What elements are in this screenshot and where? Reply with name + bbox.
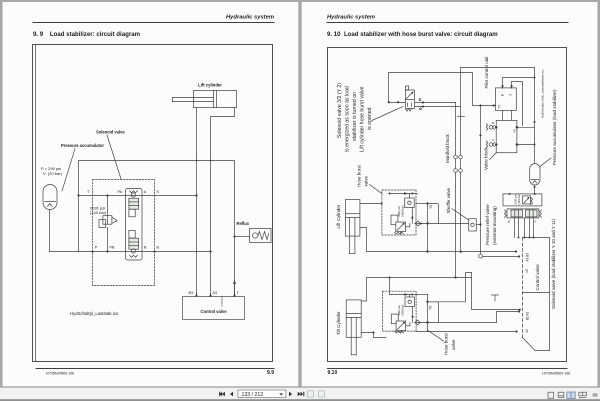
riser tilt circuit (417, 294, 427, 296)
trunk T2 (460, 68, 462, 156)
svg-text:B: B (491, 122, 495, 124)
wire HBV1 to shuffle valve (415, 223, 469, 225)
accumulator A2 (530, 164, 540, 185)
svg-text:valve: valve (451, 339, 456, 350)
svg-text:(140 bar): (140 bar) (90, 210, 107, 215)
wires solenoid block to control valve (514, 218, 516, 238)
footer rule right page (328, 368, 568, 370)
leader to accumulator (62, 149, 75, 192)
footer rule left page (36, 368, 274, 370)
wire lift cap port (360, 203, 382, 205)
wire shuffle to x3 (476, 224, 480, 226)
svg-text:2031 psi: 2031 psi (514, 194, 518, 205)
HBV2 internal wires (400, 331, 402, 333)
prev view ghost icon (308, 391, 325, 397)
svg-text:B3: B3 (189, 291, 194, 295)
solenoid valve block Y10 Y11 (507, 209, 539, 218)
manifold port circles (454, 155, 458, 159)
svg-text:Shuffle valve: Shuffle valve (446, 187, 451, 213)
accumulator A1 (43, 185, 57, 210)
wire lift rod port (360, 228, 516, 252)
svg-text:A3: A3 (213, 291, 218, 295)
svg-text:HY05A4/9500-198: HY05A4/9500-198 (46, 372, 74, 376)
svg-text:Pressure accumulator (load sta: Pressure accumulator (load stabilizer) (552, 89, 557, 165)
svg-text:9.9: 9.9 (267, 370, 274, 376)
check valve CV-B (489, 126, 493, 130)
svg-text:T: T (509, 94, 513, 96)
svg-text:A3 B3: A3 B3 (526, 253, 530, 262)
HBV2 top wire (389, 278, 391, 295)
svg-text:Tilt Cylinder: Tilt Cylinder (336, 311, 341, 335)
hose burst valve 2 enclosure (382, 291, 416, 331)
pilot unit wiring (503, 78, 535, 88)
HBV2 check valve (405, 297, 415, 307)
valve block box (496, 120, 517, 152)
first page button (222, 392, 225, 397)
svg-text:Lift Cylinder: Lift Cylinder (336, 204, 341, 228)
riser lift circuit (427, 204, 429, 252)
lift cylinder body (194, 91, 237, 108)
single page layout icon (548, 392, 554, 398)
header rule right page (327, 22, 568, 24)
prev page button (230, 392, 233, 397)
next page button (289, 392, 292, 397)
wire pipe1 cap side down to B3 (196, 108, 198, 297)
pilot plug x (494, 295, 496, 301)
svg-text:Solenoid valve 3/2 (Y 2): Solenoid valve 3/2 (Y 2) (337, 83, 343, 138)
right page sheet (302, 2, 598, 387)
svg-text:Control valve: Control valve (535, 264, 540, 291)
wire riser and top run to pilot feed (389, 73, 496, 106)
shuffle valve body (469, 219, 477, 231)
svg-text:(140 bar): (140 bar) (517, 193, 521, 204)
svg-text:PA: PA (118, 190, 123, 194)
page number box (238, 390, 286, 398)
wire lift cap to riser (416, 203, 428, 205)
svg-text:Hose burst: Hose burst (444, 332, 449, 355)
facing pages icon selected (567, 392, 575, 399)
HBV1 pilot valve (391, 215, 398, 225)
svg-text:Reflux: Reflux (237, 221, 250, 226)
wire pipe2 down to A3 (210, 252, 212, 297)
wire tilt rod port (361, 333, 386, 338)
control valve box right page (523, 238, 550, 351)
pressure relief valve RV2 (523, 196, 531, 204)
pressure relief valve RV1 (107, 196, 109, 216)
svg-text:(400 bar): (400 bar) (400, 205, 404, 216)
svg-text:Hydraulic system: Hydraulic system (327, 15, 375, 21)
svg-text:HydSchaltpl_Laststab.iso: HydSchaltpl_Laststab.iso (70, 311, 119, 316)
pilot check valve V2 (129, 230, 135, 238)
valve cartridge housing (126, 189, 143, 261)
HBV1 top wire (390, 193, 418, 195)
control valve box (183, 297, 245, 320)
leader shuffle valve (452, 209, 469, 220)
pilot check valve V1 (131, 193, 135, 197)
trunk T1 (455, 103, 457, 156)
svg-text:133 / 212: 133 / 212 (242, 392, 264, 398)
relief valve block (503, 194, 542, 206)
control valve internal stub (221, 297, 223, 307)
diagram frame left page (33, 45, 273, 362)
solenoid valve dashed enclosure (93, 180, 155, 286)
leader hose burst top (370, 185, 382, 194)
HBV1 internal wires (400, 232, 402, 234)
toolbar background (0, 387, 600, 401)
continuous facing icon (579, 392, 587, 397)
leader accumulator (540, 158, 551, 167)
lift cylinder rod right page (349, 217, 351, 253)
leader to solenoid valve box (107, 135, 121, 179)
svg-text:Lift cylinder hose burst valve: Lift cylinder hose burst valve (360, 86, 366, 152)
node top wire junctions (77, 194, 197, 196)
node bottom wire junctions (91, 250, 211, 252)
svg-text:x2: x2 (525, 329, 529, 333)
svg-text:89: 89 (593, 393, 599, 398)
valve block right wiring (517, 126, 535, 128)
HBV1 spring (394, 232, 403, 234)
svg-text:Y9: Y9 (513, 129, 517, 133)
svg-text:Valve block: Valve block (484, 147, 489, 170)
svg-text:Control valve: Control valve (201, 309, 228, 314)
wire to reflux (235, 236, 250, 238)
leader note to valve Y2 (372, 107, 403, 121)
bottom wire P-PB-B-B (50, 251, 211, 253)
svg-text:valve: valve (364, 175, 369, 186)
lift cylinder piston (213, 91, 215, 108)
HBV1 shuttle ball (415, 221, 420, 226)
svg-text:Y7: Y7 (498, 105, 502, 109)
last page button (298, 392, 301, 397)
lift cylinder rod (173, 97, 214, 99)
svg-text:is energized as soon as load: is energized as soon as load (345, 86, 351, 152)
svg-text:Lift cylinder: Lift cylinder (198, 83, 222, 88)
tilt cylinder rod (350, 317, 352, 354)
wire Y2 left port to riser (389, 102, 405, 104)
diagram frame right page (328, 48, 567, 362)
svg-text:Solenoid valve (load stabilize: Solenoid valve (load stabilizer Y 10 and… (551, 218, 556, 309)
svg-text:(external mounting): (external mounting) (492, 206, 497, 245)
svg-text:stabilizer is turned on: stabilizer is turned on (352, 92, 358, 141)
svg-text:9.10: 9.10 (328, 370, 338, 376)
svg-text:Pressure relief valve: Pressure relief valve (485, 204, 490, 245)
left page sheet (3, 2, 299, 387)
HBV2 spring (395, 331, 404, 333)
lift cylinder body right page (346, 200, 360, 237)
HBV2 shuttle ball (415, 320, 420, 325)
entry arrows into control valve (195, 293, 198, 297)
svg-text:A: A (491, 139, 495, 141)
svg-text:PB: PB (110, 246, 115, 250)
continuous layout icon (558, 392, 564, 397)
leader hose burst valve (427, 330, 443, 341)
solenoid coil tab (406, 86, 409, 90)
wire tilt cap port (361, 278, 455, 302)
wire L pipe rod side (211, 108, 235, 252)
svg-text:Pilot control unit: Pilot control unit (484, 56, 489, 89)
solenoid valve note text (rotated) (337, 83, 373, 152)
gauge point marks (419, 99, 421, 101)
svg-text:B2 A2: B2 A2 (526, 311, 530, 320)
plug bar on T2 (458, 115, 465, 117)
tilt cylinder body (346, 300, 361, 337)
svg-text:Hose burst: Hose burst (357, 164, 362, 187)
header rule left page (33, 22, 274, 24)
manifold plate outline (79, 161, 235, 297)
pilot control unit box (495, 88, 516, 111)
bypass loop tilt (428, 302, 439, 323)
wire tilt cap to trunk (428, 273, 472, 302)
check valve CV-A (489, 143, 493, 147)
svg-text:Y5: Y5 (429, 205, 433, 209)
svg-text:Pressure accumulator: Pressure accumulator (61, 143, 104, 148)
wire x2 pilot line (416, 331, 516, 333)
hose burst valve 1 enclosure (382, 190, 416, 235)
HBV1 check valve (405, 198, 415, 208)
svg-text:9. 9 Load stabilizer: circu: 9. 9 Load stabilizer: circuit diagram (33, 31, 141, 38)
HBV2 pilot valve (391, 314, 398, 324)
bypass loop lift (428, 204, 439, 224)
top wire T-PA-A-S (79, 195, 197, 197)
svg-text:(400 bar): (400 bar) (401, 304, 405, 315)
svg-text:9. 10 Load stabilizer with ho: 9. 10 Load stabilizer with hose burst va… (327, 31, 498, 38)
frame inner margin line (35, 45, 37, 362)
svg-text:Y6: Y6 (429, 306, 433, 310)
svg-text:HydSchaltpl_Hydr_Laststabilisa: HydSchaltpl_Hydr_Laststabilisator.iso (541, 69, 545, 118)
svg-text:Hydraulic system: Hydraulic system (226, 15, 274, 21)
HBV2 top wire (390, 294, 418, 296)
wire Y2 right port (415, 102, 456, 104)
spring below valve (406, 109, 412, 112)
wire HBV2 to x2 (415, 312, 519, 323)
node reflux tap (233, 235, 235, 237)
solenoid valve 3/2 Y2 (406, 90, 415, 109)
wire second top run (415, 106, 461, 108)
reflux restrictor F1 (250, 229, 272, 243)
svg-text:V (20 bar): V (20 bar) (43, 171, 63, 176)
valve block port dots (495, 126, 518, 146)
svg-text:is opened: is opened (367, 107, 373, 130)
svg-text:Solenoid valve: Solenoid valve (96, 130, 125, 135)
pilot unit lower stubs (502, 110, 504, 120)
wire accumulator to P line (49, 210, 51, 252)
leader valve block (490, 153, 497, 160)
arrow on T drain (233, 280, 236, 285)
svg-text:x3: x3 (525, 269, 529, 273)
svg-text:B: B (507, 220, 511, 222)
svg-text:HY05A4/9500-198: HY05A4/9500-198 (542, 372, 570, 376)
svg-text:Manifold block: Manifold block (445, 133, 450, 163)
